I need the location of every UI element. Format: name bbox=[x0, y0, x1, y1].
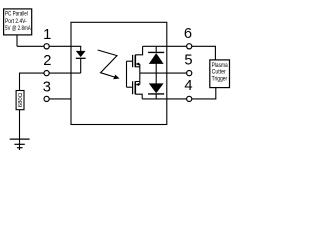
svg-text:4: 4 bbox=[184, 78, 192, 94]
svg-text:680Ω: 680Ω bbox=[18, 93, 24, 108]
svg-text:6: 6 bbox=[184, 26, 192, 42]
svg-text:2: 2 bbox=[43, 53, 51, 69]
svg-text:5: 5 bbox=[184, 52, 192, 68]
svg-text:Trigger: Trigger bbox=[212, 75, 228, 82]
svg-text:5V @ 2.8mA: 5V @ 2.8mA bbox=[5, 25, 31, 32]
svg-text:3: 3 bbox=[43, 80, 51, 96]
svg-text:1: 1 bbox=[43, 27, 51, 43]
svg-text:Port 2.4V-: Port 2.4V- bbox=[5, 18, 27, 25]
svg-text:PC Parallel: PC Parallel bbox=[5, 11, 28, 18]
